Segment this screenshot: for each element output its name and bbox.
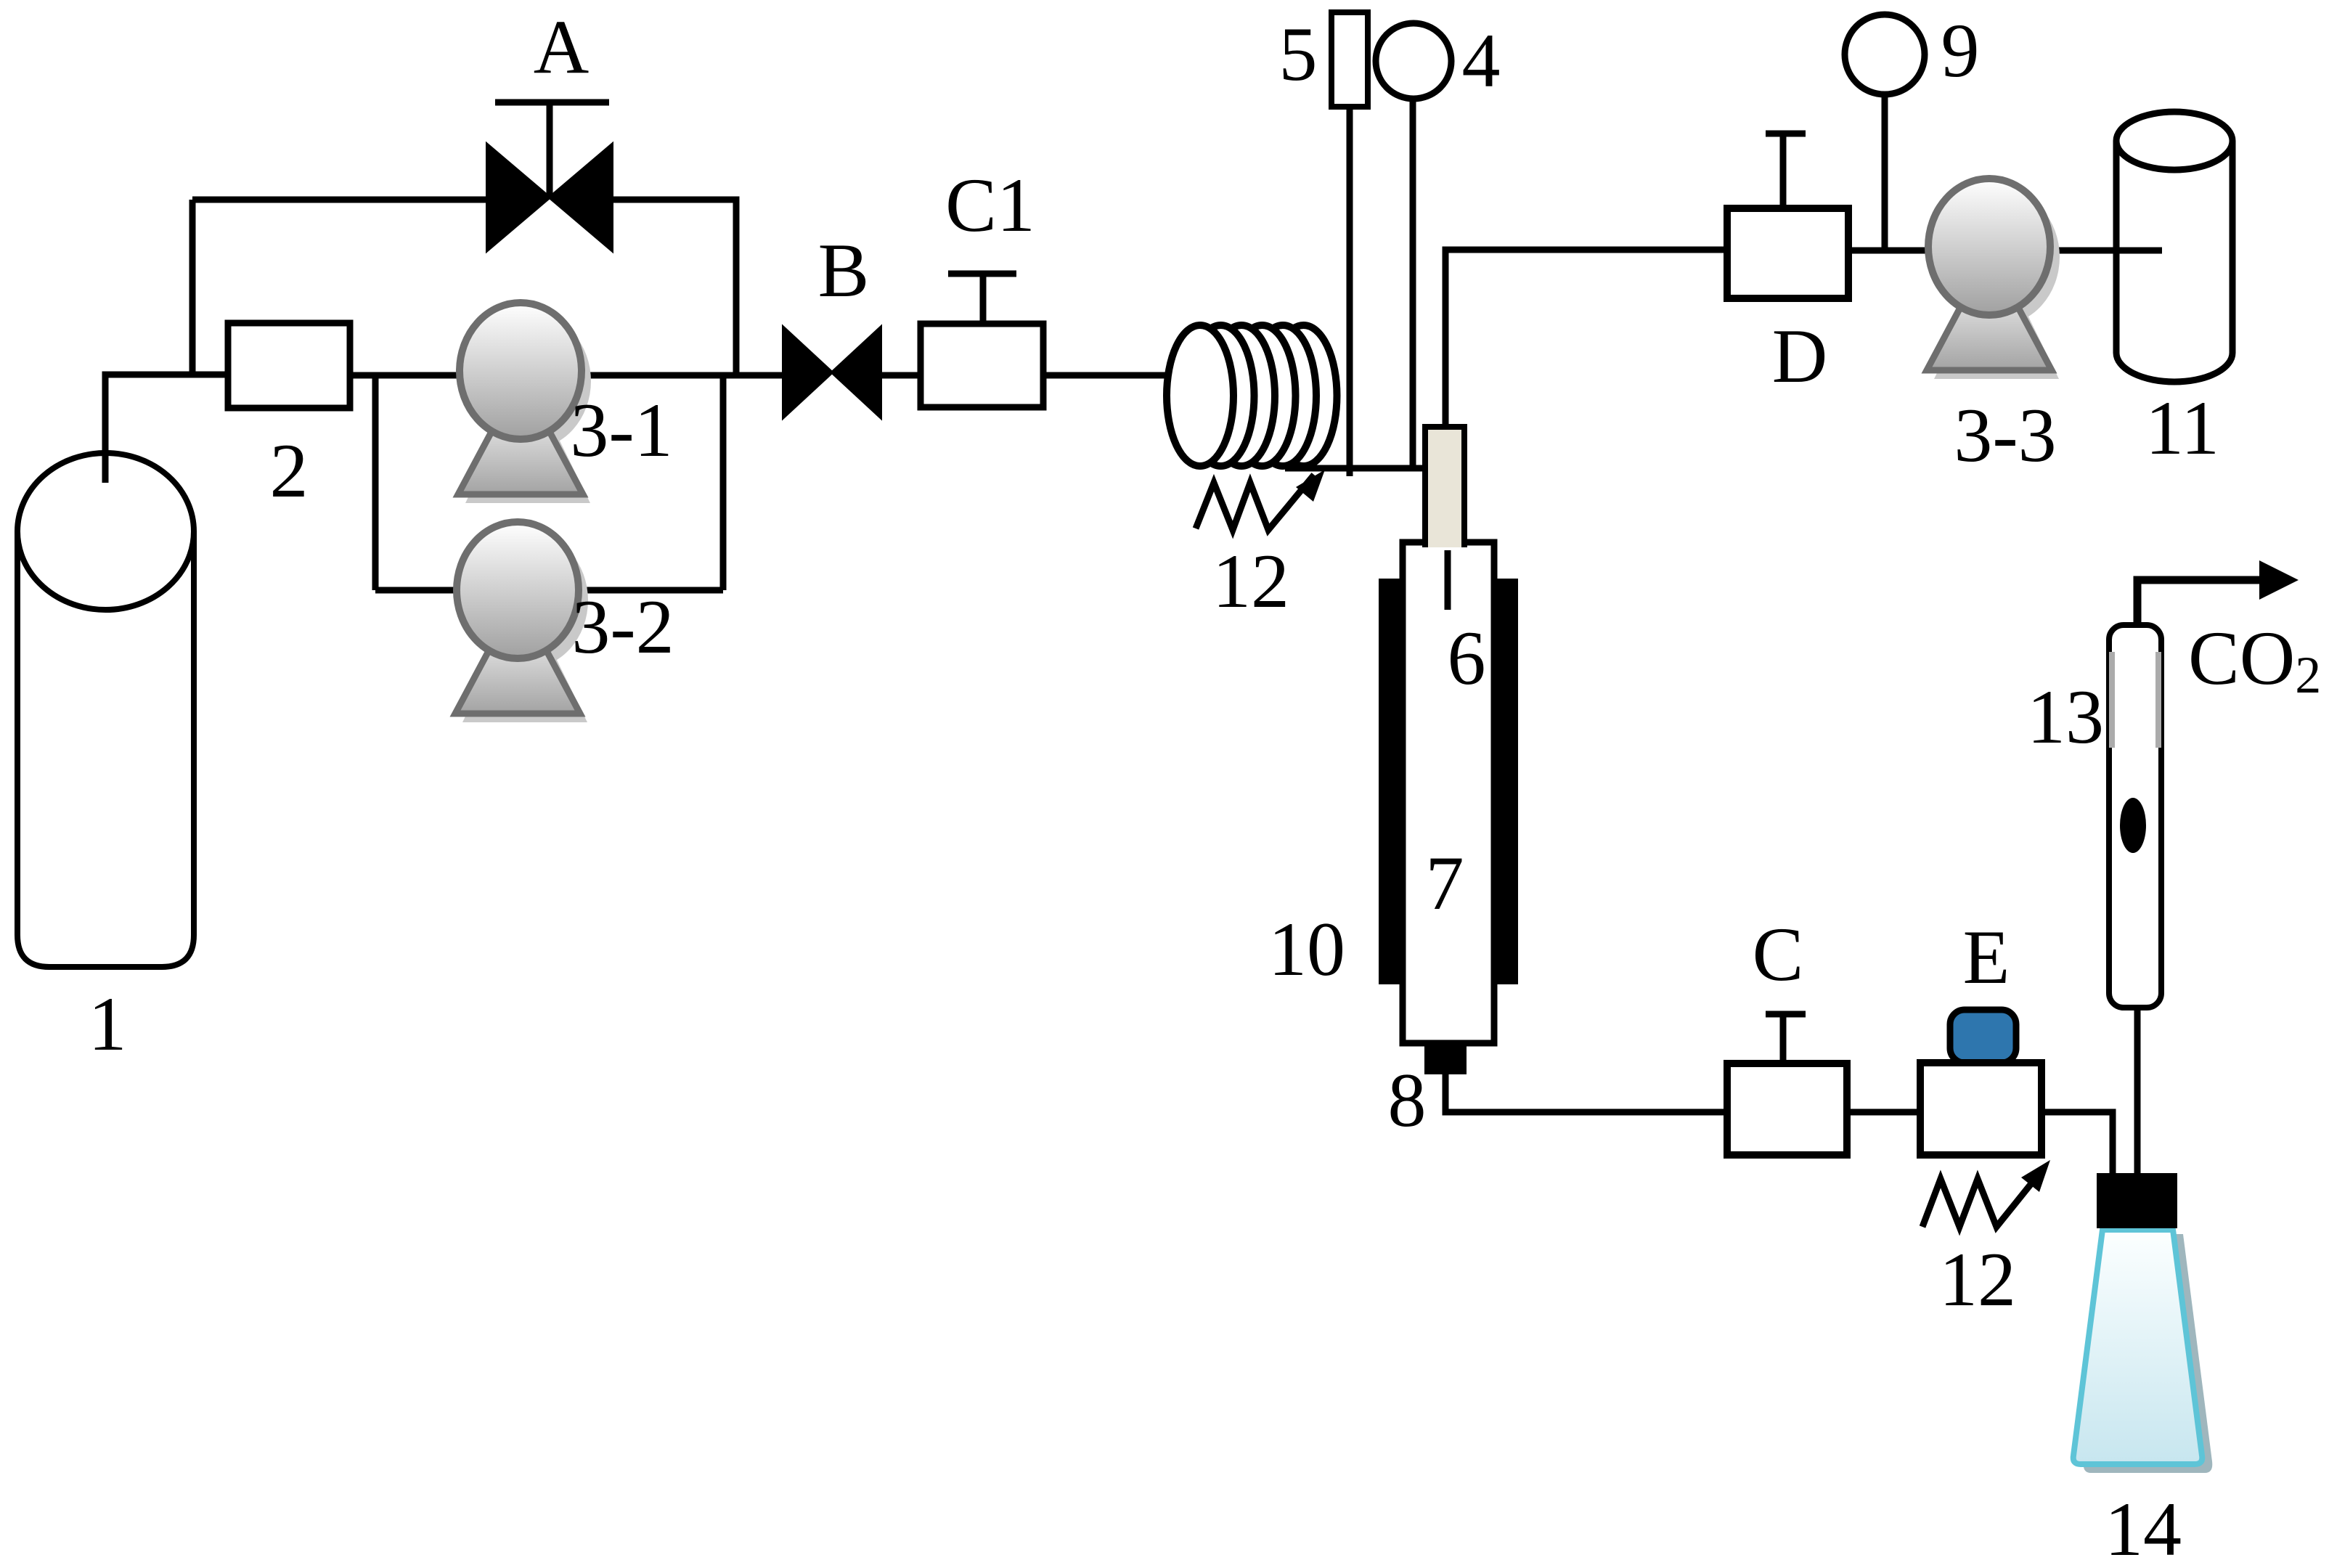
gas cylinder 1 top ellipse bbox=[17, 453, 194, 610]
heater arrow head 12 top bbox=[1296, 470, 1325, 502]
svg-text:2: 2 bbox=[270, 428, 309, 513]
gauge 9 stem bbox=[1882, 94, 1888, 250]
wire bypass left riser bbox=[189, 200, 196, 375]
svg-text:D: D bbox=[1772, 314, 1828, 399]
column inlet plug bbox=[1425, 427, 1464, 547]
heater arrow head 12 bottom bbox=[2021, 1160, 2050, 1192]
heater zigzag 12 bottom bbox=[1922, 1171, 2042, 1227]
extraction column body 7 bbox=[1403, 542, 1494, 1043]
svg-text:13: 13 bbox=[2027, 674, 2104, 759]
svg-text:12: 12 bbox=[1939, 1237, 2016, 1322]
svg-text:A: A bbox=[534, 4, 590, 89]
heat exchange coil bbox=[1167, 325, 1337, 466]
box D bbox=[1727, 208, 1848, 298]
wire boxC1 to coil bbox=[1043, 372, 1187, 379]
svg-text:10: 10 bbox=[1268, 907, 1345, 992]
wire box C to box E bbox=[1847, 1109, 1920, 1116]
valve A handle bbox=[495, 102, 609, 197]
cylinder 11 body bbox=[2116, 141, 2232, 382]
thermowell line 6 bbox=[1445, 550, 1451, 610]
svg-text:C1: C1 bbox=[945, 163, 1035, 248]
svg-text:14: 14 bbox=[2105, 1487, 2182, 1568]
valve B body bbox=[783, 327, 881, 417]
wire cylinder1 to filter2 bbox=[105, 375, 228, 483]
svg-text:4: 4 bbox=[1462, 18, 1501, 103]
flask 14 shadow bbox=[2084, 1234, 2213, 1473]
box C bbox=[1727, 1063, 1847, 1155]
svg-text:5: 5 bbox=[1279, 12, 1318, 97]
heating jacket left bar 10 bbox=[1379, 579, 1406, 984]
svg-text:C: C bbox=[1753, 912, 1804, 997]
wire flowmeter to flask bbox=[2134, 1008, 2141, 1176]
CO2 arrow head bbox=[2259, 560, 2299, 600]
wire pump 3-3 to cylinder 11 bbox=[2044, 248, 2162, 254]
svg-text:6: 6 bbox=[1448, 616, 1486, 701]
column outlet fitting 8 bbox=[1424, 1045, 1467, 1074]
wire box E to flask bbox=[2042, 1112, 2113, 1176]
flask 14 bbox=[2073, 1230, 2203, 1464]
svg-text:E: E bbox=[1963, 915, 2010, 1000]
svg-text:9: 9 bbox=[1941, 8, 1980, 93]
flowmeter gray side segments bbox=[2112, 652, 2158, 748]
coil outlet line bbox=[1285, 465, 1425, 472]
wire pump 3-2 riser up to main line bbox=[720, 375, 727, 590]
svg-text:12: 12 bbox=[1212, 539, 1289, 624]
CO2 vent line with arrow bbox=[2137, 580, 2265, 628]
flowmeter float bbox=[2120, 798, 2146, 853]
thermocouple tube 5 bbox=[1331, 12, 1368, 107]
blue cap E bbox=[1950, 1010, 2016, 1063]
gas cylinder 1 body bbox=[17, 531, 194, 967]
svg-text:8: 8 bbox=[1388, 1058, 1427, 1143]
wire box D to pump 3-3 bbox=[1848, 248, 1935, 254]
pressure gauge 9 bbox=[1845, 15, 1925, 94]
svg-text:3-3: 3-3 bbox=[1954, 393, 2056, 478]
wire bypass top left segment bbox=[192, 197, 490, 203]
svg-text:1: 1 bbox=[89, 981, 127, 1066]
box C handle bbox=[1766, 1014, 1806, 1063]
box E bbox=[1920, 1063, 2042, 1155]
valve A body bbox=[487, 144, 612, 250]
svg-text:B: B bbox=[818, 228, 870, 313]
box C1 bbox=[921, 324, 1043, 407]
box C1 handle bbox=[948, 274, 1016, 324]
box D handle bbox=[1766, 134, 1806, 208]
pump 3-1 bbox=[458, 303, 591, 503]
pressure gauge 4 bbox=[1376, 23, 1451, 99]
flask stopper bbox=[2097, 1173, 2177, 1228]
filter box 2 bbox=[228, 323, 350, 408]
wire pump 3-2 line bbox=[375, 587, 723, 594]
cylinder 11 top ellipse bbox=[2116, 112, 2232, 170]
pump 3-3 bbox=[1927, 179, 2060, 379]
wire branch down to pump 3-2 bbox=[372, 375, 379, 590]
svg-text:3-2: 3-2 bbox=[571, 584, 674, 669]
svg-text:11: 11 bbox=[2145, 385, 2219, 470]
tube 5 stem bbox=[1347, 107, 1353, 476]
flowmeter 13 tube bbox=[2109, 625, 2161, 1008]
wire main line filter2 to valveB bbox=[350, 372, 788, 379]
outlet line down bbox=[1445, 1074, 1727, 1112]
riser to box D bbox=[1445, 250, 1727, 427]
gas cylinder 1 dip tube bbox=[102, 375, 109, 483]
heater zigzag 12 top bbox=[1196, 475, 1314, 530]
wire bypass top right segment and right riser bbox=[610, 200, 736, 375]
wire valveB to boxC1 bbox=[876, 372, 923, 379]
heating jacket right bar 10 bbox=[1491, 579, 1518, 984]
svg-text:7: 7 bbox=[1426, 841, 1464, 926]
gauge 4 stem bbox=[1410, 99, 1416, 468]
pump 3-2 bbox=[455, 522, 588, 722]
svg-text:3-1: 3-1 bbox=[570, 388, 672, 473]
